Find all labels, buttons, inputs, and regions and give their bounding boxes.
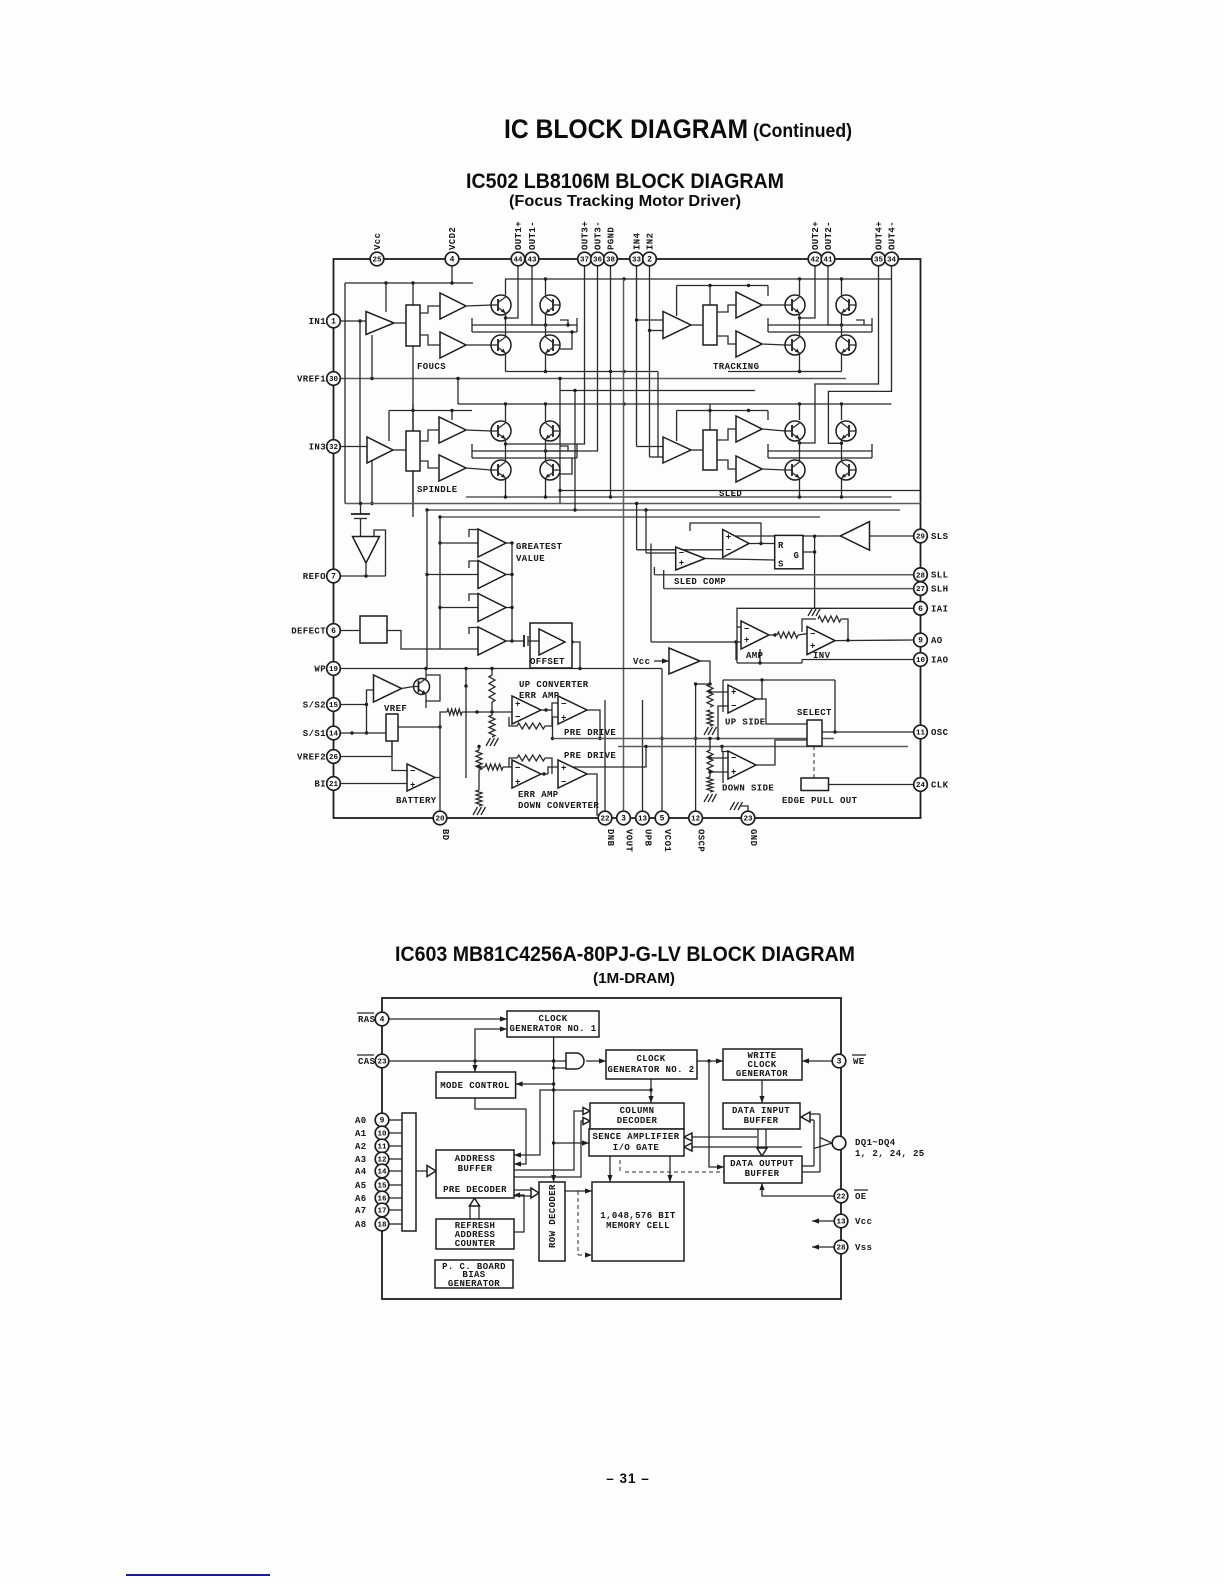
svg-text:UP CONVERTER: UP CONVERTER [519, 680, 589, 690]
svg-text:CLOCK: CLOCK [636, 1054, 665, 1064]
svg-text:OUT3-: OUT3- [594, 221, 604, 250]
wire OSC line [822, 731, 914, 733]
wire pre drive 1 plus input [553, 717, 559, 739]
svg-text:(1M-DRAM): (1M-DRAM) [593, 970, 675, 987]
svg-text:CAS: CAS [358, 1057, 376, 1067]
svg-text:28: 28 [916, 572, 926, 580]
pc board bias generator box [435, 1260, 513, 1288]
svg-text:41: 41 [823, 257, 833, 265]
transistor sled Q2 [836, 421, 856, 441]
greatest value amp 1 [478, 529, 506, 557]
svg-text:13: 13 [836, 1219, 846, 1227]
svg-text:36: 36 [593, 257, 603, 265]
svg-text:+: + [731, 688, 737, 698]
svg-text:Vcc: Vcc [633, 657, 650, 667]
wire focus rect bottom drop [412, 346, 414, 517]
op-amp err amp up [512, 696, 541, 724]
wire clock gen 2 to write clock gen [697, 1060, 723, 1062]
wire OUT1- pin43 drop [532, 266, 546, 325]
pin 12 A3 [375, 1152, 389, 1166]
wire converter box left edge [465, 669, 467, 779]
wire Vcc buffer output to ladder [700, 661, 710, 684]
wire clock gen 2 to column decoder [650, 1079, 652, 1103]
wire spindle supply rail [389, 410, 472, 412]
svg-text:MEMORY CELL: MEMORY CELL [606, 1221, 670, 1231]
pin 22 DNB [598, 811, 612, 825]
wire clock gen 2 branch to data output buffer [709, 1061, 724, 1167]
wire long bus y=510 [427, 509, 900, 511]
svg-text:DATA INPUT: DATA INPUT [732, 1106, 790, 1116]
svg-text:24: 24 [916, 782, 926, 790]
wire long bus y=390.5 [560, 390, 755, 392]
svg-text:SELECT: SELECT [797, 708, 832, 718]
svg-text:37: 37 [580, 257, 589, 265]
svg-text:ERR AMP: ERR AMP [518, 790, 559, 800]
wire DQ vertical A [813, 1120, 815, 1166]
pin 28 Vss [834, 1240, 848, 1254]
svg-text:30: 30 [329, 376, 339, 384]
wire IAO line [802, 659, 914, 661]
pin 12 OSCP [689, 811, 703, 825]
pin 27 SLH [914, 582, 928, 596]
wire comp1 minus feed [646, 552, 676, 554]
SELECT block [807, 720, 822, 746]
wire up-converter ladder [491, 669, 493, 676]
svg-text:38: 38 [606, 257, 616, 265]
wire pin 12 to address bus [389, 1158, 402, 1160]
wire IN1 to focus amp [340, 320, 366, 322]
svg-text:29: 29 [916, 534, 926, 542]
resistor amp-inv [777, 632, 798, 638]
wire tracking pair link [799, 313, 801, 337]
wire greatest value outputs [506, 542, 512, 544]
svg-text:15: 15 [329, 702, 339, 710]
svg-text:14: 14 [377, 1169, 387, 1177]
vref transistor bracket [426, 675, 440, 701]
wire VOUT bus x=623.5 [623, 279, 625, 818]
wire GND riser pin23 [741, 806, 748, 811]
pin 5 VCO1 [655, 811, 669, 825]
svg-text:DNB: DNB [605, 829, 615, 847]
op-amp up side [728, 685, 756, 713]
svg-text:−: − [515, 713, 521, 723]
wire left inner vertical x=360 [359, 321, 361, 504]
svg-text:VREF2: VREF2 [297, 753, 326, 763]
svg-text:9: 9 [918, 637, 923, 646]
svg-text:S/S2: S/S2 [303, 701, 326, 711]
wire ref cap feed [360, 504, 362, 515]
pin 15 S/S2 [327, 698, 341, 712]
svg-text:5: 5 [660, 815, 665, 824]
svg-text:6: 6 [918, 605, 923, 614]
transistor spindle Q3 [491, 460, 511, 480]
resistor down side ladder 1 [707, 750, 713, 773]
svg-text:4: 4 [450, 256, 455, 265]
wire pre decoder to row decoder [514, 1189, 532, 1191]
svg-text:2: 2 [647, 256, 652, 265]
svg-text:3: 3 [621, 815, 626, 824]
wire SLS line [870, 535, 914, 537]
wire IN3 to spindle amp [340, 446, 367, 448]
pin 23 CAS [375, 1054, 389, 1068]
svg-text:FOUCS: FOUCS [417, 362, 446, 372]
wire INV feedback [802, 619, 816, 632]
svg-text:−: − [515, 764, 521, 774]
ground up-converter ladder [486, 738, 491, 746]
mode control box [436, 1072, 516, 1098]
wire focus pair link [505, 313, 507, 337]
svg-text:BUFFER: BUFFER [744, 1116, 779, 1126]
wire DNB bus x=605 [604, 700, 606, 818]
wire pin 16 to address bus [389, 1197, 402, 1199]
svg-text:28: 28 [836, 1245, 846, 1253]
svg-text:WP: WP [314, 665, 326, 675]
wire and gate to clock gen 2 [586, 1060, 606, 1062]
battery amp [407, 764, 435, 791]
driver spindle upper [439, 417, 466, 443]
transistor sled Q4 [836, 460, 856, 480]
IC502 outer border [334, 259, 921, 818]
svg-text:GENERATOR: GENERATOR [448, 1279, 500, 1289]
svg-text:OUT3+: OUT3+ [581, 221, 591, 250]
wire mid vertical x=575 [574, 391, 576, 511]
svg-text:COLUMN: COLUMN [620, 1106, 655, 1116]
svg-text:11: 11 [916, 730, 926, 738]
wire CAS to clock gen 1 [475, 1029, 507, 1061]
svg-text:OUT1-: OUT1- [528, 221, 538, 250]
wire to sence amplifier [554, 1142, 589, 1144]
wire err amp down output [541, 773, 548, 775]
address buffer / pre decoder box [436, 1150, 514, 1198]
pin 25 Vcc [370, 252, 384, 266]
svg-text:SLS: SLS [931, 532, 949, 542]
svg-text:VOUT: VOUT [624, 829, 634, 852]
wire OUT1+ pin44 drop [506, 266, 519, 318]
svg-text:22: 22 [836, 1194, 846, 1202]
svg-text:A7: A7 [355, 1206, 367, 1216]
wire spindle pair link [505, 439, 507, 462]
wire pin 18 to address bus [389, 1223, 402, 1225]
pin 2 IN2 [643, 252, 657, 266]
op-amp tracking input [663, 312, 691, 339]
wire up side ladder taps [710, 691, 728, 693]
wire VCD2 supply rail y=283 [378, 282, 473, 284]
op-amp spindle input [367, 437, 393, 463]
wire VREF1 rail [340, 378, 846, 380]
memory cell box [592, 1182, 684, 1261]
wire IAI line [737, 608, 914, 627]
svg-text:A2: A2 [355, 1142, 367, 1152]
wire spindle cross-couple [472, 450, 577, 452]
svg-text:IC502 LB8106M BLOCK DIAGRAM: IC502 LB8106M BLOCK DIAGRAM [466, 170, 784, 193]
wire battery minus feed [392, 741, 407, 771]
pin 29 SLS [914, 529, 928, 543]
column decoder box [590, 1103, 684, 1129]
wire tracking supply rail [677, 285, 768, 287]
pin 22 OE [834, 1189, 848, 1203]
wire battery output to BD [435, 778, 440, 812]
svg-text:IN4: IN4 [633, 232, 643, 250]
pin 10 IAO [914, 653, 928, 667]
wire pre drive 2 output [587, 774, 605, 815]
data input buffer box [723, 1103, 800, 1129]
pin 21 BI [327, 777, 341, 791]
level shift block focus [406, 305, 420, 346]
wire pin6 to defect box [340, 630, 360, 632]
svg-text:ROW DECODER: ROW DECODER [548, 1184, 558, 1248]
svg-text:10: 10 [377, 1131, 387, 1139]
svg-text:IC603 MB81C4256A-80PJ-G-LV BLO: IC603 MB81C4256A-80PJ-G-LV BLOCK DIAGRAM [395, 943, 855, 966]
wire refresh counter to address buffer [469, 1204, 471, 1219]
svg-text:+: + [515, 778, 521, 788]
offset amp [539, 629, 565, 655]
resistor ladder down-converter top [476, 750, 482, 770]
svg-text:Vcc: Vcc [373, 233, 383, 250]
wire sence amp to data buffers 2 [684, 1146, 802, 1148]
svg-text:−: − [726, 546, 732, 556]
pin 13 Vcc [834, 1214, 848, 1228]
svg-text:I/O GATE: I/O GATE [613, 1143, 660, 1153]
svg-text:SLL: SLL [931, 571, 948, 581]
wire CAS rail [389, 1060, 566, 1062]
svg-text:13: 13 [638, 816, 648, 824]
svg-text:OUT2-: OUT2- [824, 221, 834, 250]
svg-text:1, 2, 24, 25: 1, 2, 24, 25 [855, 1149, 925, 1159]
svg-text:BATTERY: BATTERY [396, 796, 437, 806]
wire mode control to address buffer [475, 1098, 526, 1164]
pin 42 OUT2+ [808, 252, 822, 266]
wire err amp up output [541, 709, 552, 711]
svg-text:19: 19 [329, 666, 339, 674]
svg-text:34: 34 [887, 257, 897, 265]
node DQ open arrow [820, 1138, 832, 1144]
wire ref buffer output [365, 563, 367, 576]
svg-text:44: 44 [513, 257, 523, 265]
wire AMP enclosure box [801, 660, 803, 664]
wire spindle rect bottom drop [412, 471, 414, 510]
wire CAS to mode control [474, 1061, 476, 1072]
driver tracking lower [736, 331, 762, 357]
wire OUT2- pin41 drop [828, 266, 842, 325]
svg-text:OSCP: OSCP [696, 829, 706, 852]
wire S/S1 to vref block [366, 705, 368, 734]
vcc buffer amp [669, 648, 700, 674]
svg-text:SPINDLE: SPINDLE [417, 485, 458, 495]
svg-text:A5: A5 [355, 1181, 367, 1191]
svg-text:OE: OE [855, 1192, 867, 1202]
wire address buffer to column decoder 1 [514, 1111, 590, 1170]
svg-text:GREATEST: GREATEST [516, 542, 563, 552]
svg-text:Vss: Vss [855, 1243, 872, 1253]
pin 33 IN4 [630, 252, 644, 266]
wire tracking cross-couple [768, 324, 872, 326]
pin 11 OSC [914, 725, 928, 739]
svg-text:1,048,576 BIT: 1,048,576 BIT [600, 1211, 676, 1221]
svg-text:A6: A6 [355, 1194, 367, 1204]
pin 20 BD [433, 811, 447, 825]
svg-text:DQ1~DQ4: DQ1~DQ4 [855, 1138, 896, 1148]
svg-text:BUFFER: BUFFER [458, 1164, 493, 1174]
wire OUT4- pin34 drop [828, 266, 891, 444]
svg-text:IN3: IN3 [309, 443, 326, 453]
sls buffer [840, 522, 869, 551]
pin 19 WP [327, 662, 341, 676]
svg-text:G: G [794, 551, 800, 561]
svg-text:−: − [561, 778, 567, 788]
wire comp2 output to R [749, 543, 775, 545]
svg-text:23: 23 [743, 816, 753, 824]
svg-text:+: + [410, 781, 416, 791]
svg-text:RAS: RAS [358, 1015, 376, 1025]
transistor spindle Q1 [491, 421, 511, 441]
op-amp AMP [741, 621, 769, 649]
wire PGND pin38 drop [610, 266, 612, 497]
ground G output [808, 608, 813, 616]
wire write clock to data input buffer [761, 1079, 763, 1103]
svg-text:DOWN SIDE: DOWN SIDE [722, 784, 774, 794]
resistor input down-converter [485, 764, 503, 770]
footer rule [126, 1574, 270, 1576]
svg-text:BI: BI [314, 780, 326, 790]
pin 9 AO [914, 633, 928, 647]
svg-text:AO: AO [931, 636, 943, 646]
wire down-converter ladder feed [478, 747, 480, 751]
wire S/S2 to vref amp [340, 704, 366, 706]
svg-text:DECODER: DECODER [617, 1116, 658, 1126]
svg-text:VALUE: VALUE [516, 554, 545, 564]
svg-text:32: 32 [329, 444, 339, 452]
wire refresh counter right link [514, 1195, 524, 1232]
op-amp INV [807, 627, 835, 655]
offset coupling capacitor [520, 640, 524, 642]
wire UPB bus x=642.5 [642, 700, 644, 818]
svg-text:+: + [810, 642, 816, 652]
DEFECT detector box [360, 616, 387, 643]
svg-text:26: 26 [329, 754, 339, 762]
wire row decoder to memory solid [565, 1190, 592, 1192]
svg-text:1: 1 [331, 318, 336, 327]
wire Vss arrow [812, 1246, 834, 1248]
svg-text:18: 18 [377, 1222, 387, 1230]
svg-text:UP SIDE: UP SIDE [725, 718, 766, 728]
write clock generator box [723, 1049, 802, 1080]
svg-text:−: − [561, 700, 567, 710]
wire OUT3- pin36 drop [546, 266, 598, 451]
svg-text:22: 22 [600, 816, 610, 824]
pin 10 A1 [375, 1126, 389, 1140]
svg-text:WE: WE [853, 1057, 865, 1067]
svg-text:VCD2: VCD2 [448, 227, 458, 250]
wire top collector bus y=279 [505, 278, 892, 280]
pin 44 OUT1+ [511, 252, 525, 266]
svg-text:(Focus Tracking Motor Driver): (Focus Tracking Motor Driver) [509, 193, 741, 210]
wire pre drive 1 output [587, 710, 600, 739]
op-amp err amp down [512, 760, 541, 788]
svg-text:10: 10 [916, 657, 926, 665]
wire WE pin to write clock gen [802, 1060, 832, 1062]
pin 24 CLK [914, 778, 928, 792]
transistor tracking Q4 [836, 335, 856, 355]
data output buffer box [724, 1156, 802, 1183]
svg-text:REFO: REFO [303, 572, 326, 582]
wire vref transistor collector [425, 669, 427, 676]
svg-text:−: − [679, 549, 685, 559]
wire comp1 output to S [705, 559, 775, 561]
pin 43 OUT1- [525, 252, 539, 266]
EDGE PULL OUT block [801, 778, 829, 791]
wire down side ladder [709, 739, 711, 751]
wire mid vertical x=560 [559, 379, 561, 504]
svg-text:20: 20 [435, 816, 445, 824]
svg-text:3: 3 [837, 1058, 842, 1067]
transistor focus Q1 [491, 295, 511, 315]
svg-text:4: 4 [380, 1016, 385, 1025]
wire OUT2+ pin42 drop [800, 266, 816, 318]
svg-text:17: 17 [377, 1208, 386, 1216]
wire SLL line [654, 574, 913, 576]
vref transistor [414, 679, 430, 695]
wire err amp minus rail [462, 711, 512, 713]
svg-text:DOWN CONVERTER: DOWN CONVERTER [518, 801, 599, 811]
transistor spindle Q4 [540, 460, 560, 480]
wire tracking emitter bus y=371 [799, 354, 801, 372]
pin 35 OUT4+ [872, 252, 886, 266]
svg-text:−: − [731, 754, 737, 764]
svg-text:(Continued): (Continued) [753, 121, 852, 142]
svg-text:23: 23 [377, 1059, 387, 1067]
svg-text:35: 35 [874, 257, 884, 265]
comparator sll/slh [723, 530, 749, 558]
svg-text:IAO: IAO [931, 656, 949, 666]
svg-text:SLED: SLED [719, 489, 742, 499]
driver focus upper [440, 293, 466, 319]
svg-text:OUT4-: OUT4- [888, 221, 898, 250]
svg-text:S/S1: S/S1 [303, 729, 326, 739]
offset block box [530, 623, 572, 668]
wire AMP plus input rail [651, 641, 741, 643]
ground down side ladder [704, 794, 709, 802]
svg-text:VREF: VREF [384, 704, 407, 714]
wire DEFECT route to greatest value [387, 631, 478, 650]
wire down side minus feed [722, 747, 728, 752]
svg-text:OUT2+: OUT2+ [811, 221, 821, 250]
clock generator no.2 box [606, 1050, 697, 1079]
pin 37 OUT3+ [578, 252, 592, 266]
svg-text:IN2: IN2 [646, 233, 656, 250]
wire focus cross-couple [472, 324, 577, 326]
pin 6 DEFECT [327, 624, 341, 638]
resistor inv feedback [818, 616, 841, 622]
wire OE to data output buffer [762, 1183, 834, 1196]
svg-text:25: 25 [372, 257, 382, 265]
svg-text:−: − [731, 702, 737, 712]
AND gate [566, 1053, 584, 1069]
pin 23 GND [741, 811, 755, 825]
svg-text:TRACKING: TRACKING [713, 362, 759, 372]
svg-text:PRE DECODER: PRE DECODER [443, 1185, 507, 1195]
svg-text:VCO1: VCO1 [662, 829, 672, 852]
svg-text:GENERATOR NO. 1: GENERATOR NO. 1 [509, 1024, 596, 1034]
svg-text:+: + [744, 636, 750, 646]
wire select to edge pull out dashed [813, 746, 815, 778]
resistor input up-converter [447, 709, 462, 715]
wire comp2 minus feed [637, 549, 723, 551]
ref buffer inverter [353, 537, 380, 564]
wire VCO1 bus x=662 [661, 669, 663, 819]
wire pre drive bus y=746.5 [618, 746, 908, 748]
svg-text:AMP: AMP [746, 651, 764, 661]
svg-text:IC BLOCK DIAGRAM: IC BLOCK DIAGRAM [504, 114, 748, 144]
